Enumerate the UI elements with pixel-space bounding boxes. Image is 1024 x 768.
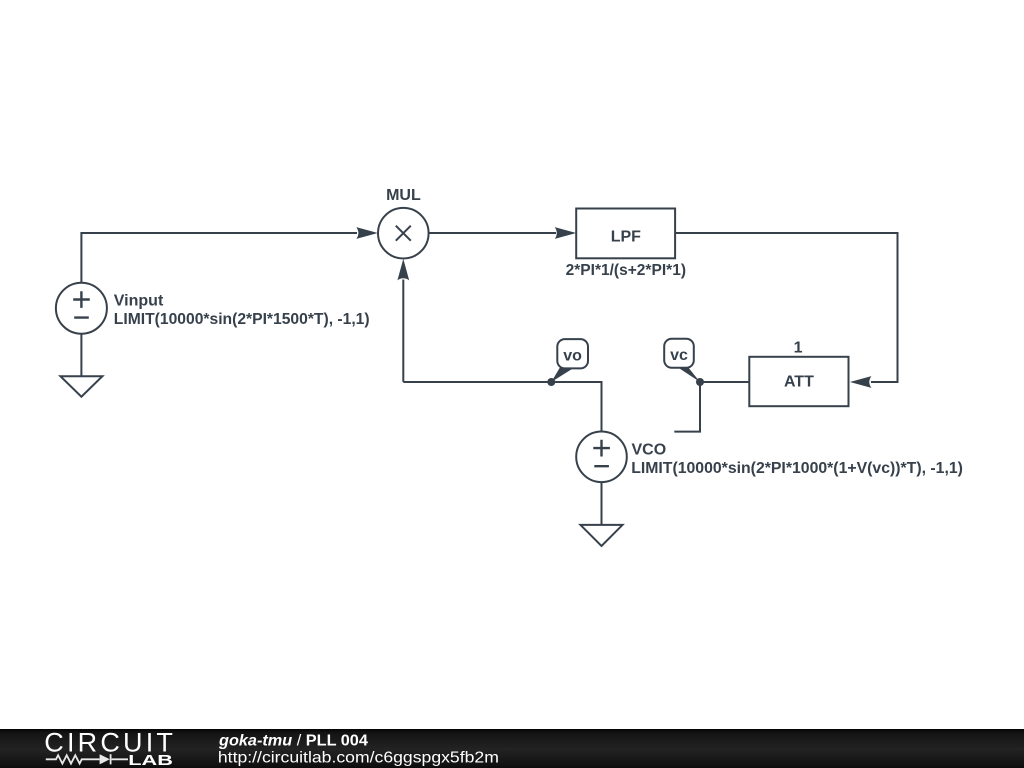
svg-text:VCO: VCO <box>632 442 667 459</box>
svg-text:ATT: ATT <box>784 374 814 391</box>
svg-text:LIMIT(10000*sin(2*PI*1500*T),: LIMIT(10000*sin(2*PI*1500*T), -1,1) <box>114 311 370 328</box>
svg-text:vc: vc <box>670 347 688 364</box>
svg-text:2*PI*1/(s+2*PI*1): 2*PI*1/(s+2*PI*1) <box>566 262 686 279</box>
svg-text:LIMIT(10000*sin(2*PI*1000*(1+V: LIMIT(10000*sin(2*PI*1000*(1+V(vc))*T), … <box>631 460 963 477</box>
svg-text:1: 1 <box>794 340 803 357</box>
svg-text:MUL: MUL <box>386 187 421 204</box>
svg-text:http://circuitlab.com/c6ggspgx: http://circuitlab.com/c6ggspgx5fb2m <box>218 749 499 766</box>
svg-text:vo: vo <box>563 347 582 364</box>
svg-text:LPF: LPF <box>611 229 641 246</box>
svg-text:LAB: LAB <box>128 752 173 768</box>
svg-text:goka-tmu / PLL 004: goka-tmu / PLL 004 <box>218 732 368 749</box>
svg-text:Vinput: Vinput <box>114 293 164 310</box>
